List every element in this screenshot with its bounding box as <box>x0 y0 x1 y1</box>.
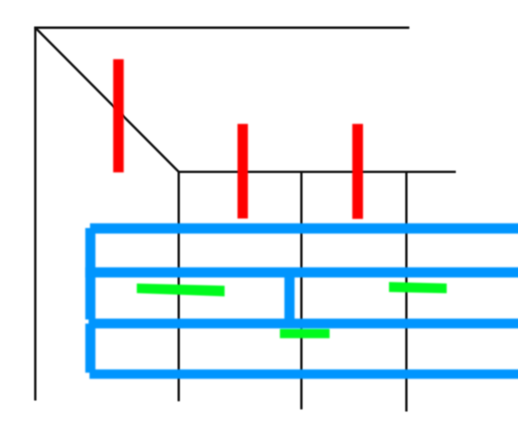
blue bar third horizontal <box>89 319 518 329</box>
green bar G3 <box>280 329 330 338</box>
red bar R3 <box>352 124 363 219</box>
blue bar bottom horizontal <box>90 369 518 378</box>
blue short vertical connector <box>284 277 294 319</box>
wire: top horizontal black line <box>34 27 409 29</box>
blue bar second horizontal <box>85 267 518 277</box>
green bar G2 <box>389 282 447 293</box>
green bar G1 <box>137 284 225 297</box>
red bar R2 <box>238 124 248 219</box>
blue left vertical upper segment <box>85 228 95 320</box>
blue left vertical lower segment <box>85 324 95 373</box>
wire: left vertical black line <box>34 27 36 401</box>
red bar R1 <box>113 59 124 172</box>
wire: diagonal black line <box>35 28 179 172</box>
wire: vertical black line at junction <box>178 172 180 401</box>
wire: middle vertical black line <box>300 172 302 410</box>
blue bar top horizontal <box>90 223 518 233</box>
wire: right vertical black line <box>405 172 407 412</box>
wire: middle horizontal black line <box>179 171 456 173</box>
